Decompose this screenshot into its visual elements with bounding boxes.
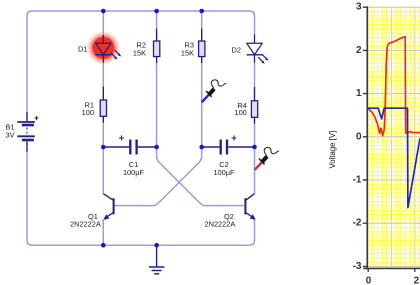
ground bbox=[149, 245, 165, 274]
chart x ticks bbox=[368, 268, 415, 272]
wire D1 column top bbox=[102, 11, 104, 35]
node top rail / R3 bbox=[199, 9, 204, 14]
label R4 bbox=[237, 101, 246, 110]
chart axis title Voltage [V] bbox=[328, 131, 337, 169]
label R1 value 100 bbox=[82, 108, 94, 117]
svg-text:0: 0 bbox=[356, 131, 362, 142]
LED D2 bbox=[247, 35, 269, 64]
chart red trace (Q2 collector voltage) bbox=[368, 37, 420, 136]
chart major gray gridlines vertical bbox=[392, 7, 415, 268]
label C1 value 100uF bbox=[123, 168, 145, 177]
chart y-axis bbox=[366, 6, 368, 268]
node C2 right bbox=[252, 145, 257, 150]
wire cross-coupling C2 node to Q1 base bbox=[115, 147, 202, 206]
label C2 value 100uF bbox=[213, 168, 235, 177]
label R1 bbox=[85, 100, 94, 109]
label Q1 type 2N2222A bbox=[70, 220, 101, 229]
svg-text:100: 100 bbox=[82, 108, 94, 117]
node rail / Q1 emitter bbox=[101, 243, 106, 248]
svg-text:15K: 15K bbox=[181, 49, 194, 58]
svg-text:0: 0 bbox=[366, 276, 372, 285]
probe red (channel 2) bbox=[255, 147, 279, 169]
wire Q1 emitter to rail bbox=[102, 220, 104, 246]
label C2 bbox=[219, 160, 228, 169]
wire cross-coupling C1 node to Q2 base bbox=[157, 147, 244, 206]
svg-text:-2: -2 bbox=[353, 218, 362, 229]
node C1 left bbox=[101, 145, 106, 150]
label R2 bbox=[137, 41, 146, 50]
wire top rail with corners bbox=[27, 11, 255, 112]
chart major gray gridlines horizontal bbox=[368, 7, 420, 266]
resistor R3 bbox=[199, 29, 205, 64]
svg-text:2: 2 bbox=[414, 276, 420, 285]
wire R3 column top bbox=[201, 11, 203, 29]
svg-text:2N2222A: 2N2222A bbox=[205, 220, 236, 229]
svg-text:100µF: 100µF bbox=[213, 168, 235, 177]
label Q2 bbox=[224, 212, 234, 221]
label Q2 type 2N2222A bbox=[205, 220, 236, 229]
label B1 value 3V bbox=[6, 130, 15, 139]
wire R2 to C1 node bbox=[156, 63, 158, 148]
svg-text:3V: 3V bbox=[6, 130, 15, 139]
probe blue (channel 1) bbox=[202, 80, 226, 102]
resistor R2 bbox=[154, 29, 160, 64]
wire D2 to R4 bbox=[254, 63, 256, 88]
chart x-axis bbox=[363, 267, 420, 269]
svg-text:100µF: 100µF bbox=[123, 168, 145, 177]
label C1 bbox=[129, 160, 138, 169]
svg-text:100: 100 bbox=[234, 108, 246, 117]
wire D1 to R1 bbox=[102, 63, 104, 87]
svg-text:3: 3 bbox=[356, 2, 362, 13]
wire R2 column top bbox=[156, 11, 158, 29]
wire R4 to Q2 collector bbox=[254, 123, 256, 194]
node top rail / D1 bbox=[101, 9, 106, 14]
chart plot background grid (weak yellow) bbox=[368, 7, 420, 268]
svg-text:15K: 15K bbox=[133, 49, 146, 58]
node top rail / R2 bbox=[154, 9, 159, 14]
transistor Q1 (2N2222A, base right) bbox=[103, 194, 113, 220]
label R4 value 100 bbox=[234, 108, 246, 117]
chart blue trace (Q2 base voltage) bbox=[368, 108, 420, 207]
label R3 bbox=[185, 41, 194, 50]
battery B1 bbox=[17, 112, 38, 152]
svg-text:2N2222A: 2N2222A bbox=[70, 220, 101, 229]
node C2 left bbox=[199, 145, 204, 150]
svg-text:D1: D1 bbox=[78, 45, 87, 54]
label D1 bbox=[78, 45, 87, 54]
svg-text:Voltage [V]: Voltage [V] bbox=[328, 131, 337, 169]
label Q1 bbox=[88, 212, 98, 221]
svg-text:-1: -1 bbox=[353, 175, 362, 186]
capacitor C1 bbox=[105, 136, 156, 155]
resistor R1 bbox=[100, 87, 106, 123]
chart y ticks bbox=[363, 7, 368, 266]
capacitor C2 bbox=[203, 136, 253, 155]
chart grid strong yellow bbox=[368, 7, 420, 268]
resistor R4 bbox=[251, 87, 257, 124]
wire bottom rail with corners bbox=[27, 151, 255, 245]
node C1 right bbox=[154, 145, 159, 150]
wire R3 to C2 node bbox=[201, 63, 203, 148]
transistor Q2 (2N2222A, base left) bbox=[245, 194, 255, 220]
label B1 bbox=[6, 122, 15, 131]
wire R1 to Q1 collector bbox=[102, 123, 104, 194]
svg-text:2: 2 bbox=[356, 45, 362, 56]
chart y-axis labels bbox=[353, 2, 362, 272]
chart x-axis labels bbox=[366, 276, 420, 285]
label R2 value 15K bbox=[133, 49, 146, 58]
svg-text:-3: -3 bbox=[353, 261, 362, 272]
label R3 value 15K bbox=[181, 49, 194, 58]
svg-text:D2: D2 bbox=[232, 46, 241, 55]
node rail / ground bbox=[154, 243, 159, 248]
label D2 bbox=[232, 46, 241, 55]
svg-text:1: 1 bbox=[356, 88, 362, 99]
LED D1 (lit, red glow) bbox=[85, 30, 121, 66]
